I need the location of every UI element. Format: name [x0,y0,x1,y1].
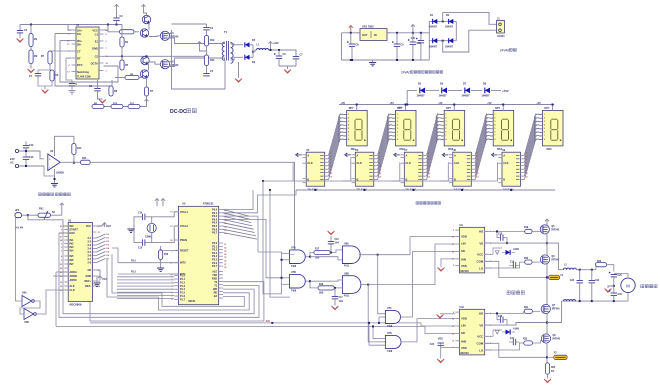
svg-text:ADDC: ADDC [69,278,77,282]
wire u8b drop [368,285,385,342]
svg-text:R11: R11 [130,104,135,106]
voltage regulator VR1 7805 [357,25,391,41]
wire left power rail [172,34,226,90]
svg-text:11: 11 [452,326,454,328]
svg-text:IRF540: IRF540 [552,229,560,232]
wire opamp gnd [54,169,56,183]
junction mb3 [613,300,615,302]
capacitor C26 [609,286,623,301]
capacitor C2 [113,9,123,25]
wire bridge bottom out [443,30,497,52]
wire q6 down [546,264,548,305]
wire SR chain 2 [342,162,400,181]
diode D1 [429,14,438,29]
wire dc5 [491,89,501,91]
junction qm2 [546,322,548,324]
junction u7b [309,280,311,282]
svg-text:IRF540: IRF540 [552,308,560,311]
svg-text:IN2: IN2 [69,242,74,246]
svg-text:AT89C51: AT89C51 [203,202,214,206]
junction DS3 vcc [453,104,455,106]
net arrow SR4 [442,153,448,157]
junction u7a [309,256,311,258]
svg-text:EA: EA [214,295,218,298]
svg-text:ADDA: ADDA [69,270,77,274]
svg-text:CT: CT [77,50,81,54]
wire u10 vs [485,323,547,326]
adc data fan [96,234,105,263]
resistor R4 [120,25,129,57]
wire u9 ho [485,230,525,232]
svg-text:12: 12 [428,173,430,175]
wire R3 to Q2 [134,31,139,33]
wire SR1 AB [296,154,302,156]
svg-text:C14: C14 [138,212,143,215]
svg-text:VSS: VSS [461,346,467,350]
svg-text:13: 13 [428,176,430,178]
svg-text:3: 3 [476,152,477,154]
svg-text:C15: C15 [138,248,143,250]
svg-text:R24: R24 [551,366,556,369]
wire bridge left [428,21,430,60]
wire int0 label [118,260,178,262]
capacitor C12 [23,142,34,152]
wire SR gnd rail [296,189,555,191]
svg-text:E1: E1 [95,40,99,44]
svg-text:+: + [49,157,51,161]
svg-text:7: 7 [397,135,398,137]
wire bottom row [98,96,147,107]
diode D12 [439,83,448,98]
svg-text:CLK: CLK [503,161,508,165]
wire bridge row top [429,20,456,22]
svg-text:10: 10 [476,166,478,168]
wire g2 in2 [282,283,290,285]
svg-text:8: 8 [348,139,349,141]
svg-text:10: 10 [379,166,381,168]
connector J1 AC [497,18,506,39]
svg-text:R18: R18 [319,284,324,286]
svg-text:VCC: VCC [477,253,483,257]
svg-text:+5V: +5V [487,102,492,105]
junction u8b out [367,284,369,286]
mosfet Q8 [541,334,560,343]
diode D16 [502,327,519,335]
wire u8b to right [368,244,455,285]
svg-text:R2: R2 [34,54,38,58]
svg-text:C26: C26 [618,294,623,296]
wire minus loop [44,166,55,176]
shift register U6 74LS164 [352,149,378,191]
svg-text:5: 5 [397,128,398,130]
ground u10 vdd [437,314,456,318]
svg-text:DC-DC: DC-DC [170,109,187,115]
wire dc3 [448,89,462,91]
resistor R5 [120,56,129,70]
svg-text:1K: 1K [551,369,554,373]
svg-text:7408: 7408 [291,265,297,268]
svg-text:C19: C19 [510,261,515,263]
diode D11 [417,83,426,98]
svg-text:3: 3 [397,121,398,123]
junction s4 [420,32,422,34]
svg-text:IRF540: IRF540 [553,338,561,341]
svg-text:C12: C12 [29,144,34,147]
svg-text:220: 220 [266,320,271,323]
wire u7a to u8a [310,257,342,260]
svg-text:5: 5 [348,128,349,130]
svg-text:13: 13 [330,176,332,178]
svg-text:A: A [406,153,408,157]
svg-text:2N-: 2N- [77,42,81,46]
ground motor mid [605,286,614,292]
svg-text:IN5: IN5 [69,254,74,258]
ground below C1 [17,39,24,43]
power +V arrow A [115,5,119,10]
pin numbers U3 left [60,226,63,292]
junction b1 [442,20,444,22]
svg-text:U8B: U8B [344,272,349,275]
diode D14 [482,83,491,98]
svg-text:3: 3 [330,152,331,154]
power +V out arrow [269,42,280,52]
power arrow pot [51,203,64,215]
wire DS2 vcc stub [405,105,407,111]
capacitor C13 [23,151,34,166]
svg-text:3: 3 [526,152,527,154]
wire U1 pin C1 to R3 [104,30,120,32]
wire snubber rail [172,23,207,25]
junction n1 [107,24,118,26]
wire SR5 AB [492,154,498,156]
svg-text:OE: OE [87,268,91,272]
svg-text:6: 6 [379,163,380,165]
svg-text:5: 5 [445,128,446,130]
svg-text:DPY: DPY [349,107,354,110]
power arrow adc vcc [96,223,106,228]
resistor R2 [29,47,38,64]
svg-text:R13: R13 [210,59,215,62]
mosfet Q5 [540,225,560,234]
svg-text:5K: 5K [52,211,55,214]
svg-text:C21: C21 [510,338,515,340]
ground transformer [235,62,242,82]
junction out1 [278,49,280,51]
shift register U5 74LS164 [302,149,328,191]
wire DS4 vcc stub [502,105,504,111]
wire vcc rail over IC [107,25,109,31]
wire to L1 [253,50,257,52]
svg-text:CLK: CLK [406,161,411,165]
junction br [271,322,273,324]
svg-text:C17: C17 [339,297,344,299]
svg-text:2-1: 2-1 [87,236,91,240]
pin numbers U3 right [98,226,101,288]
svg-text:5: 5 [330,159,331,161]
inductor L1 [257,44,269,51]
wire trunk 4 [258,216,282,253]
transistor Q2 [140,29,148,37]
svg-text:8: 8 [544,139,545,141]
diode D5 pair [239,39,256,47]
svg-text:6: 6 [428,163,429,165]
svg-text:U7B: U7B [291,271,296,274]
wire SR rail drop [262,180,271,191]
inductor L3 [564,300,576,302]
svg-text:C25: C25 [618,275,623,277]
wire trunk 3 [270,190,290,297]
svg-text:-: - [49,165,50,169]
wire adc addr2 [53,275,68,277]
svg-text:VDD: VDD [461,316,467,320]
capacitor C5 [203,66,213,76]
resistor R13 [204,55,215,66]
svg-text:5: 5 [428,159,429,161]
junction c18a [496,230,498,232]
wire left col [341,33,343,60]
svg-text:6: 6 [445,132,446,134]
svg-text:IN: IN [374,33,377,37]
svg-text:1N-: 1N- [77,32,81,36]
svg-text:6: 6 [526,163,527,165]
svg-text:4148: 4148 [513,327,519,331]
junction gf2 [281,277,283,279]
pin numbers U1 left [67,30,70,74]
resistor R24 [545,363,556,374]
label display section [416,202,441,205]
resistor R14 [72,144,82,155]
shift register U9 74LS164 [498,149,524,191]
wire mcu-sr link1 [223,190,253,210]
svg-text:REF-: REF- [85,284,91,288]
svg-text:VSS: VSS [438,337,443,341]
display DS1 7seg [339,107,368,151]
junction r18c [334,287,336,289]
junction r17c [330,252,332,254]
svg-text:RT: RT [77,57,81,61]
driver U9 IR2110 [460,227,485,273]
svg-text:13: 13 [476,176,478,178]
driver U10 IR2110 [460,309,485,355]
svg-text:11: 11 [428,170,430,172]
wire SR chain 1 [293,157,351,181]
svg-text:CLK: CLK [69,288,74,292]
svg-text:1: 1 [445,114,446,116]
pin numbers U6 P1 [171,275,173,301]
junction mb2 [591,300,593,302]
svg-text:VCC: VCC [106,225,111,228]
svg-text:12: 12 [526,173,528,175]
and gate U7C [385,307,400,328]
wire u7b to u8b [310,280,342,281]
inductor L2 [564,265,577,270]
capacitor C23 [570,270,583,301]
wire snubber mid [206,46,208,55]
svg-text:+24V: +24V [273,42,279,45]
capacitor C16 [328,239,340,253]
svg-text:13: 13 [452,341,454,343]
svg-text:1N4007: 1N4007 [439,95,448,98]
junction top-left [30,24,32,26]
svg-text:U7C: U7C [387,307,392,310]
display DS3 7seg [436,107,465,151]
ground u9 vss [438,259,456,271]
wire snubber column top [203,27,213,36]
svg-text:U10: U10 [460,306,465,309]
symbol dz2 [495,330,499,334]
svg-text:74LS164: 74LS164 [503,187,514,191]
junction g3 [396,59,398,61]
power +V arrow Q1 [142,5,146,10]
power arrows mcu [155,199,165,207]
wire bottom rail 2 [56,326,455,333]
wire Q3 net [148,64,150,71]
microcontroller U6 AT89C51 [174,202,223,305]
capacitor C7 [293,54,303,67]
svg-text:12: 12 [452,251,454,253]
wire node mid to L2 [547,243,564,270]
svg-text:LM358: LM358 [56,172,64,175]
shift register U8 74LS164 [449,149,475,191]
wire q8 down [546,343,548,363]
svg-text:U8A: U8A [344,243,349,246]
capacitor C9 [392,33,404,60]
symbol dz1 [495,251,499,255]
svg-text:2-6: 2-6 [87,254,91,258]
svg-text:LIN: LIN [461,242,466,246]
resistor R22 [523,339,533,345]
svg-text:8: 8 [494,139,495,141]
mosfet Q7 [541,304,560,313]
svg-text:C18: C18 [498,234,503,236]
svg-text:P2.7: P2.7 [212,265,218,268]
wire vcc2 stem [412,29,414,33]
wire mcu-sr link3 [223,215,258,217]
power arrow adc oe [96,270,107,281]
and gate U7A [290,247,306,268]
wire opamp top [55,136,74,156]
capacitor C24 [589,270,600,301]
power arrow T mid [198,42,207,52]
net arrow SR3 [394,153,400,157]
fuse F2 [547,353,567,360]
svg-text:8: 8 [445,139,446,141]
junction lc1 [579,269,581,271]
wire opamp out [60,161,80,163]
wire adc in0 [28,215,68,226]
wire r22 q8 [533,341,542,344]
wire xtal2 [152,226,179,243]
net arrow SR1 [296,153,302,157]
wire SR chain 3 [391,162,448,181]
svg-text:6: 6 [348,132,349,134]
junction gf1 [281,259,283,261]
svg-text:RT: RT [41,55,45,58]
svg-text:P0.7: P0.7 [212,232,218,235]
resistor RT1 [41,51,72,64]
wire adc addr vertical [55,272,57,326]
svg-text:REF+: REF+ [84,279,91,283]
wire pot link [28,214,38,216]
wire mcu-sr link4 [223,219,282,277]
wire u10 com [485,343,546,357]
ground rst [157,260,164,272]
junction DS1 vcc [356,104,358,106]
svg-text:R14: R14 [77,147,82,150]
svg-text:ALE: ALE [69,284,74,288]
svg-text:2-5: 2-5 [87,250,91,254]
svg-text:5: 5 [494,128,495,130]
wire u9 lo [485,262,525,268]
svg-text:R16: R16 [164,254,169,256]
crystal Y1 [145,223,156,238]
svg-text:C23: C23 [570,280,575,282]
junction T out [252,51,254,53]
svg-text:7: 7 [445,135,446,137]
wire p3 loop A [90,282,264,321]
wire R6 left [115,77,142,79]
wire g2 in [282,277,290,279]
svg-text:1: 1 [348,114,349,116]
junction g2 [351,59,353,61]
svg-text:1: 1 [397,114,398,116]
wire L1 out [269,50,297,56]
wire u10 ho [485,311,525,313]
svg-text:74LS164: 74LS164 [454,187,465,191]
wire g1 in [282,252,290,254]
svg-text:IN7: IN7 [69,262,74,266]
connector input AC [10,149,19,167]
resistor R1 [29,25,38,47]
svg-text:2-4: 2-4 [87,247,91,251]
resistor R11 [128,104,140,108]
resistor R21 [524,307,532,314]
svg-text:A: A [503,153,505,157]
svg-text:+5V: +5V [341,102,346,105]
wire bridge right [455,21,457,40]
svg-text:R23: R23 [597,261,602,263]
mcu P0 fan [223,210,257,240]
svg-text:1N4007: 1N4007 [445,26,454,29]
svg-text:7408: 7408 [291,289,297,292]
svg-text:12: 12 [330,173,332,175]
junction vs q [546,242,548,244]
wire u8a drop [378,255,386,314]
svg-text:7: 7 [494,135,495,137]
diode D6 pair [239,55,256,64]
svg-text:VCC: VCC [92,29,98,33]
wire L2 out [576,269,596,271]
svg-text:C2: C2 [95,55,99,59]
svg-text:6: 6 [494,132,495,134]
svg-text:START: START [69,228,78,232]
wire fb down [73,155,75,163]
power arrow bottom [145,96,149,104]
bus hatch 3 [427,113,438,179]
svg-text:0-5.4V: 0-5.4V [15,226,23,230]
svg-text:2: 2 [445,117,446,119]
wire u7c out [401,252,455,318]
svg-text:RD: RD [214,291,218,294]
junction s2 [396,32,398,34]
svg-text:5: 5 [526,159,527,161]
svg-text:IN3: IN3 [69,245,74,249]
wire u10 vcc [485,330,502,336]
svg-text:560: 560 [315,255,320,259]
wire dc4 [471,89,482,91]
svg-text:11: 11 [452,244,454,246]
svg-text:2: 2 [544,117,545,119]
